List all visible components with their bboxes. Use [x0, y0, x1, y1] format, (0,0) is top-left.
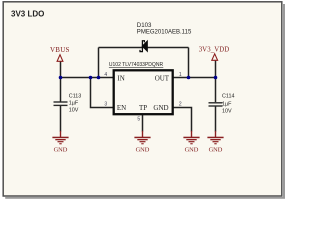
svg-text:3V3_VDD: 3V3_VDD — [199, 47, 230, 54]
U102 designator label — [109, 62, 163, 68]
op-amp U102 regulator body — [114, 70, 173, 114]
node junction diode branch — [97, 76, 101, 80]
power symbol 3V3_VDD — [199, 47, 230, 61]
ground symbol under C113 — [52, 131, 68, 154]
svg-text:GND: GND — [185, 147, 199, 154]
capacitor C113 — [54, 93, 82, 113]
wire: diode top horizontal — [99, 47, 189, 49]
svg-text:C113: C113 — [69, 93, 82, 99]
svg-text:EN: EN — [117, 104, 126, 112]
ground symbol under pin 2 — [183, 131, 199, 154]
svg-text:GND: GND — [54, 147, 68, 154]
wire: EN branch — [91, 78, 114, 108]
ground symbol under TP — [134, 131, 150, 154]
ground symbol under C114 — [207, 131, 223, 154]
svg-text:4: 4 — [104, 72, 107, 78]
svg-text:2: 2 — [179, 102, 182, 108]
wire: OUT net horizontal — [174, 77, 216, 79]
svg-text:C114: C114 — [222, 94, 235, 100]
svg-text:3: 3 — [104, 102, 107, 108]
wire: C113 bottom lead — [60, 106, 62, 132]
svg-text:GND: GND — [136, 147, 150, 154]
svg-text:GND: GND — [209, 147, 223, 154]
wire: C114 bottom lead — [215, 106, 217, 132]
wire: diode branch left riser — [98, 48, 100, 78]
node junction VBUS/C113 — [59, 76, 63, 80]
node junction OUT/C114 — [214, 76, 218, 80]
svg-text:OUT: OUT — [155, 74, 170, 82]
wire: GND pin 2 wire — [174, 108, 192, 132]
svg-text:1µF: 1µF — [69, 101, 79, 107]
sheet background — [0, 0, 285, 201]
node junction EN branch — [89, 76, 93, 80]
svg-text:10V: 10V — [69, 107, 79, 113]
wire: diode branch right drop — [188, 48, 190, 78]
wire: 3V3_VDD vertical — [215, 61, 217, 103]
svg-text:PMEG2010AEB.115: PMEG2010AEB.115 — [137, 29, 192, 36]
svg-text:1µF: 1µF — [222, 101, 232, 107]
wire: TP pin 5 stub — [142, 115, 144, 132]
power symbol VBUS — [50, 46, 70, 61]
svg-text:GND: GND — [153, 104, 168, 112]
svg-text:1: 1 — [179, 72, 182, 78]
svg-text:3V3 LDO: 3V3 LDO — [11, 9, 44, 18]
wire: C113 top lead — [60, 78, 62, 102]
capacitor C114 — [209, 94, 235, 115]
svg-text:10V: 10V — [222, 108, 232, 114]
node junction OUT/diode — [187, 76, 191, 80]
svg-text:5: 5 — [137, 117, 140, 123]
svg-text:TP: TP — [139, 104, 147, 112]
svg-text:IN: IN — [117, 74, 124, 82]
wire: VBUS vertical drop — [60, 61, 62, 77]
svg-text:VBUS: VBUS — [50, 46, 70, 54]
diode D103 — [137, 22, 192, 52]
wire: main input net horizontal — [61, 77, 114, 79]
